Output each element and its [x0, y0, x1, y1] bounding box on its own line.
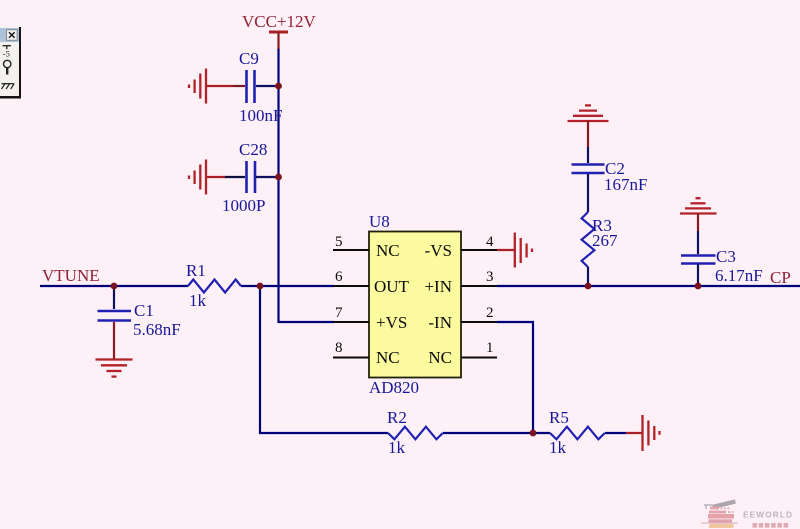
svg-text:-5: -5: [3, 49, 10, 59]
svg-text:1000P: 1000P: [222, 196, 265, 215]
capacitor C2: [572, 147, 648, 212]
svg-text:NC: NC: [376, 241, 400, 260]
ground at C28: [189, 160, 225, 195]
svg-text:CP: CP: [770, 268, 791, 287]
pin 5: [333, 234, 369, 250]
svg-text:267: 267: [592, 231, 618, 250]
wire: R5 to ground: [605, 432, 626, 434]
svg-text:R2: R2: [387, 408, 407, 427]
svg-text:OUT: OUT: [374, 277, 410, 296]
svg-text:-VS: -VS: [425, 241, 452, 260]
pin 4: [461, 234, 497, 250]
svg-text:5.68nF: 5.68nF: [133, 320, 181, 339]
svg-text:1: 1: [486, 340, 494, 356]
svg-text:+VS: +VS: [376, 313, 407, 332]
capacitor C3: [681, 231, 763, 286]
svg-text:C1: C1: [134, 301, 154, 320]
op-amp U8 AD820: [369, 212, 461, 397]
svg-text:3: 3: [486, 269, 494, 285]
svg-text:1k: 1k: [388, 438, 406, 457]
pin 8: [333, 340, 369, 358]
floating toolbar (power objects palette): [0, 27, 21, 99]
wire: pin2 down to feedback net: [497, 322, 533, 433]
power port VCC+12V: [242, 12, 317, 49]
svg-text:+IN: +IN: [424, 277, 452, 296]
svg-text:R1: R1: [186, 261, 206, 280]
junction VTUNE/C1: [111, 283, 118, 290]
wire: main horizontal net VTUNE to R1: [40, 285, 188, 287]
ground at pin 4: [497, 233, 532, 268]
capacitor C28: [222, 140, 278, 215]
svg-text:4: 4: [486, 234, 494, 250]
svg-text:5: 5: [335, 234, 343, 250]
wire: feedback down from R1 node: [260, 286, 388, 433]
svg-text:EEWORLD: EEWORLD: [743, 509, 793, 519]
pin 1: [461, 340, 497, 358]
pin 6: [333, 269, 369, 286]
wire: VCC vertical rail to pin7: [279, 48, 335, 322]
wire: pin3 to CP right edge: [497, 285, 800, 287]
wire: R2 to R5 segment: [443, 432, 550, 434]
resistor R5: [549, 408, 605, 457]
svg-text:VTUNE: VTUNE: [42, 266, 100, 285]
resistor R2: [387, 408, 443, 457]
pin 3: [461, 269, 497, 286]
junction R1/feedback: [257, 283, 264, 290]
svg-text:100nF: 100nF: [239, 106, 282, 125]
svg-text:6.17nF: 6.17nF: [715, 266, 763, 285]
junction C9/VCC rail: [275, 83, 282, 90]
svg-text:7: 7: [335, 305, 343, 321]
svg-text:U8: U8: [369, 212, 390, 231]
junction C28/VCC rail: [275, 174, 282, 181]
svg-text:C28: C28: [239, 140, 267, 159]
ground at C9: [189, 69, 233, 104]
EEWORLD watermark logo: [701, 499, 793, 528]
resistor R1: [186, 261, 241, 310]
svg-text:C3: C3: [716, 247, 736, 266]
junction C3/main: [695, 283, 702, 290]
junction R3/main: [585, 283, 592, 290]
svg-text:R5: R5: [549, 408, 569, 427]
svg-text:167nF: 167nF: [604, 175, 647, 194]
svg-text:AD820: AD820: [369, 378, 419, 397]
ground at C1: [96, 322, 133, 377]
svg-text:NC: NC: [428, 348, 452, 367]
svg-text:1k: 1k: [189, 291, 207, 310]
pin 2: [461, 305, 497, 322]
svg-text:1k: 1k: [549, 438, 567, 457]
svg-text:2: 2: [486, 305, 494, 321]
ground at R5: [626, 415, 660, 451]
svg-text:C9: C9: [239, 49, 259, 68]
svg-text:6: 6: [335, 269, 343, 285]
ground above C3: [680, 198, 717, 231]
ground above C2: [568, 105, 609, 147]
capacitor C1: [98, 286, 181, 339]
resistor R3: [582, 212, 618, 286]
svg-text:NC: NC: [376, 348, 400, 367]
junction pin2/feedback: [530, 430, 537, 437]
svg-text:-IN: -IN: [428, 313, 452, 332]
wire: R1 to pin6: [241, 285, 334, 287]
svg-text:VCC+12V: VCC+12V: [242, 12, 317, 31]
svg-text:8: 8: [335, 340, 343, 356]
pin 7: [333, 305, 369, 322]
capacitor C9: [233, 49, 282, 125]
